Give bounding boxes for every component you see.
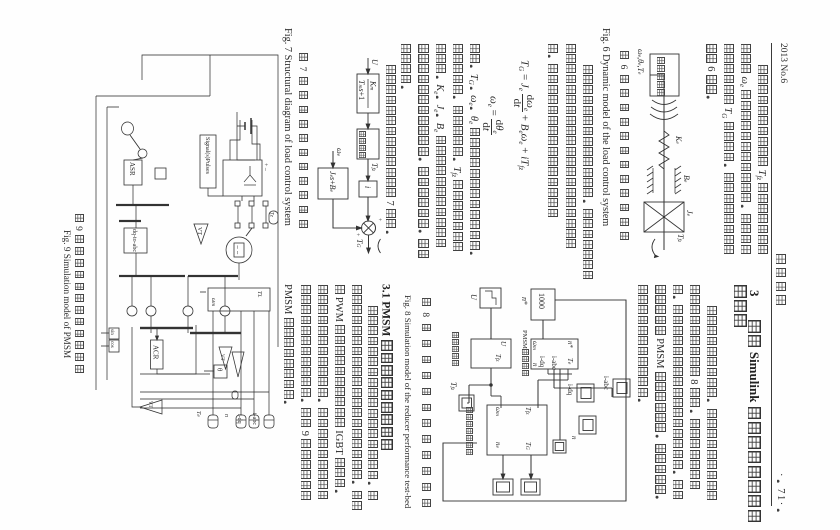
svg-text:VT: VT bbox=[147, 401, 152, 408]
svg-text:n*: n* bbox=[520, 297, 529, 305]
svg-text:i-dq: i-dq bbox=[538, 356, 546, 368]
svg-text:Signal(s)Pulses: Signal(s)Pulses bbox=[204, 137, 211, 175]
svg-text:n: n bbox=[570, 436, 578, 440]
svg-text:ωe,θe,Te: ωe,θe,Te bbox=[636, 49, 645, 75]
svg-text:1000: 1000 bbox=[537, 293, 546, 309]
svg-text:i: i bbox=[363, 186, 372, 188]
svg-text:Tfz: Tfz bbox=[524, 407, 532, 415]
svg-text:θ: θ bbox=[216, 368, 224, 372]
svg-text:Te: Te bbox=[566, 358, 574, 365]
svg-text:TL: TL bbox=[256, 291, 262, 297]
svg-text:n*: n* bbox=[566, 341, 574, 349]
svg-text:+ –: + – bbox=[262, 163, 268, 172]
svg-text:i-abc: i-abc bbox=[550, 356, 558, 370]
svg-text:ACR: ACR bbox=[152, 345, 160, 360]
svg-text:∼ ∼: ∼ ∼ bbox=[234, 245, 239, 255]
svg-text:n: n bbox=[223, 414, 229, 417]
svg-text:Tfz: Tfz bbox=[676, 234, 685, 243]
svg-text:Km: Km bbox=[369, 80, 378, 90]
svg-text:U: U bbox=[469, 294, 478, 301]
svg-text:ne: ne bbox=[494, 442, 502, 449]
svg-text:TG: TG bbox=[355, 239, 364, 247]
svg-text:i-dq: i-dq bbox=[566, 384, 574, 396]
svg-text:Tfz: Tfz bbox=[449, 382, 458, 391]
svg-text:TG: TG bbox=[524, 442, 532, 450]
svg-text:ASR: ASR bbox=[128, 162, 136, 176]
svg-text:i-dq: i-dq bbox=[236, 414, 242, 424]
svg-text:Tfz: Tfz bbox=[370, 163, 379, 172]
svg-text:ωe: ωe bbox=[335, 148, 344, 157]
svg-text:U: U bbox=[499, 341, 507, 347]
svg-text:Be: Be bbox=[682, 175, 691, 183]
svg-text:Te: Te bbox=[195, 411, 201, 417]
svg-text:VT: VT bbox=[219, 354, 224, 361]
svg-text:Tz: Tz bbox=[269, 212, 275, 218]
svg-text:dq-to-abc: dq-to-abc bbox=[131, 229, 137, 252]
svg-text:ωm: ωm bbox=[494, 407, 502, 416]
svg-text:i-abc: i-abc bbox=[251, 413, 257, 425]
svg-text:VT: VT bbox=[196, 227, 202, 235]
svg-text:Jes+Be: Jes+Be bbox=[328, 171, 337, 193]
svg-text:Ke: Ke bbox=[674, 135, 683, 144]
svg-text:Tfz: Tfz bbox=[494, 354, 502, 362]
svg-text:cos: cos bbox=[109, 341, 114, 348]
svg-text:Je: Je bbox=[685, 210, 694, 217]
svg-text:Tms+1: Tms+1 bbox=[357, 80, 366, 100]
svg-text:i-abc: i-abc bbox=[602, 376, 610, 390]
svg-text:+: + bbox=[354, 233, 360, 237]
svg-text:ωm: ωm bbox=[531, 341, 539, 350]
svg-text:ωm: ωm bbox=[210, 298, 216, 306]
svg-text:sin: sin bbox=[109, 329, 114, 335]
svg-text:+: + bbox=[376, 218, 382, 222]
svg-text:n: n bbox=[531, 363, 539, 367]
svg-text:U: U bbox=[370, 59, 379, 66]
